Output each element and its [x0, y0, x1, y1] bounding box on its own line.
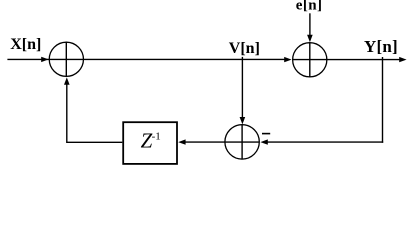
- minus sign at S3: [262, 133, 270, 135]
- wire: Z-1 output back up to S1: [64, 77, 122, 143]
- svg-text:-1: -1: [152, 130, 161, 142]
- svg-text:X[n]: X[n]: [10, 36, 41, 53]
- wire: e[n] into S2: [307, 13, 313, 42]
- wire: arrowhead into S2: [284, 57, 291, 62]
- wire: S2 output Y[n]: [327, 57, 407, 62]
- svg-text:Y[n]: Y[n]: [364, 37, 398, 56]
- block Z^-1 (unit delay): [123, 122, 177, 164]
- wire: S3 output into Z-1 block: [178, 139, 225, 144]
- svg-text:V[n]: V[n]: [229, 40, 260, 57]
- summing junction S1: [49, 42, 83, 76]
- summing junction S2: [293, 43, 327, 77]
- wire: arrowhead into S1: [41, 57, 48, 62]
- svg-text:e[n]: e[n]: [296, 0, 323, 14]
- summing junction S3: [225, 125, 260, 159]
- wire: node Y down and left into S3: [260, 57, 383, 145]
- wire: main signal line X to Y: [7, 58, 286, 60]
- label Z^-1: [141, 129, 161, 153]
- wire: node V down into S3: [240, 57, 246, 125]
